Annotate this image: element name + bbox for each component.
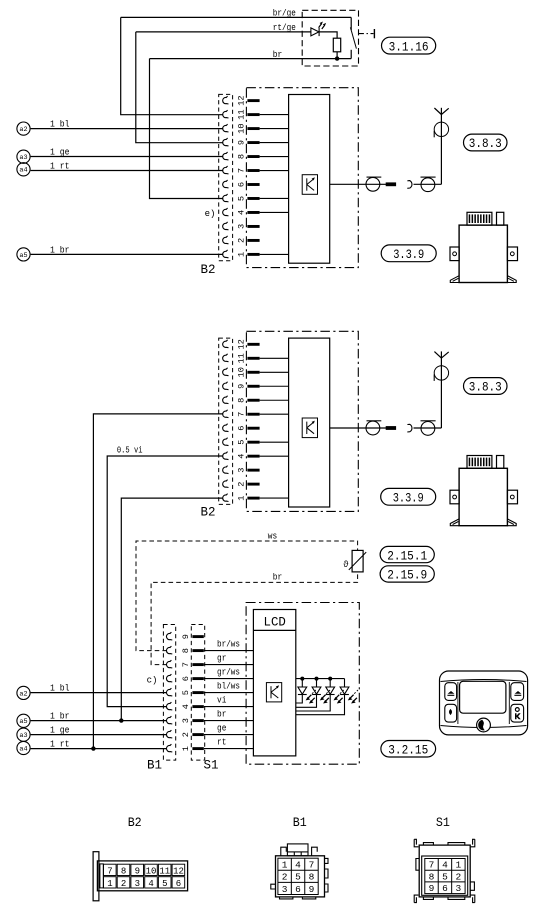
wire 1 bl to B2 pin 10 xyxy=(31,128,224,130)
svg-text:9: 9 xyxy=(237,384,247,389)
contact B1 pin 8 xyxy=(166,646,172,654)
contact B2 pin 2 xyxy=(223,480,229,488)
pin stub S1 pin 1 xyxy=(192,747,203,750)
svg-text:ws: ws xyxy=(268,531,277,541)
svg-text:gr: gr xyxy=(217,654,226,664)
pin stub S1 pin 2 xyxy=(192,733,203,736)
connector B2 contact housing (dashed) xyxy=(219,94,233,260)
contact B1 pin 6 xyxy=(166,674,172,682)
svg-text:3.3.9: 3.3.9 xyxy=(393,247,424,262)
svg-text:B2: B2 xyxy=(201,505,216,520)
svg-text:rt/ge: rt/ge xyxy=(273,23,296,33)
svg-text:9: 9 xyxy=(309,884,315,895)
contact B1 pin 7 xyxy=(166,660,172,668)
wire - B2#2 pin 7 down-link xyxy=(93,414,223,749)
resistor R1 (series resistor) xyxy=(333,38,340,52)
wire LED L1 return xyxy=(296,695,303,704)
svg-text:4: 4 xyxy=(148,879,153,889)
wire - ECU pin 9 to module xyxy=(260,385,289,387)
ECU device drawing - mounting feet xyxy=(450,519,459,526)
ECU pin stub 3 xyxy=(247,469,259,472)
svg-text:2: 2 xyxy=(121,879,126,889)
svg-text:8: 8 xyxy=(237,154,247,159)
wire S1 pin 5 to LCD module xyxy=(204,692,254,694)
ECU function symbol xyxy=(302,418,317,438)
ECU device drawing - side post xyxy=(497,456,504,469)
wire 0.5 vi - B2#2 pin 4 to B1 pin 4 xyxy=(107,456,223,707)
LED L4 emission arrows xyxy=(350,695,354,699)
connector S1 pin housing (dashed) xyxy=(191,625,204,761)
LCD display unit outline (dash-dot) xyxy=(246,603,359,765)
svg-text:br: br xyxy=(273,573,282,583)
switch S blade xyxy=(350,27,356,48)
wire LED L3 return xyxy=(296,695,330,712)
svg-text:5: 5 xyxy=(181,690,191,695)
coax jack J (circle with tangent) xyxy=(421,422,435,436)
wire LED L2 return xyxy=(296,695,317,708)
contact B2 pin 7 xyxy=(223,410,229,418)
wire 1 bl to B1 pin 5 xyxy=(31,692,167,694)
LED L3 emission arrows xyxy=(336,695,340,699)
svg-text:3: 3 xyxy=(237,468,247,473)
svg-text:9: 9 xyxy=(181,634,191,639)
contact B2 pin 10 xyxy=(223,368,229,376)
node a4 (wire origin) xyxy=(17,163,30,176)
svg-text:LCD: LCD xyxy=(264,615,286,629)
reference oval 3.3.9 xyxy=(381,245,436,262)
wire - coax feed from module xyxy=(330,427,396,429)
svg-text:a4: a4 xyxy=(19,745,27,752)
contact B2 pin 3 xyxy=(223,222,229,230)
wire - ECU pin 1 to module xyxy=(260,497,289,499)
svg-text:c): c) xyxy=(147,675,158,685)
svg-text:B1: B1 xyxy=(293,815,307,830)
connector B1 contact housing (dashed) xyxy=(163,625,175,761)
ECU pin stub 12 xyxy=(247,99,259,102)
svg-text:a2: a2 xyxy=(19,126,27,133)
wire S1 pin 8 to LCD module xyxy=(204,650,254,652)
contact B1 pin 1 xyxy=(166,744,172,752)
ECU pin stub 4 xyxy=(247,455,259,458)
ECU pin stub 11 xyxy=(247,357,259,360)
pin stub S1 pin 4 xyxy=(192,705,203,708)
svg-text:B2: B2 xyxy=(128,815,142,830)
ECU pin stub 6 xyxy=(247,183,259,186)
svg-text:10: 10 xyxy=(237,367,247,377)
antenna base circle xyxy=(434,122,448,136)
wire - coax feed from module xyxy=(330,183,396,185)
svg-text:a3: a3 xyxy=(19,154,27,161)
junction a4/1rt with B2#2 pin7 link xyxy=(91,746,95,750)
antenna arms xyxy=(434,352,441,359)
svg-text:3: 3 xyxy=(135,879,140,889)
pin stub S1 pin 3 xyxy=(192,719,203,722)
ECU pin stub 7 xyxy=(247,413,259,416)
wire - jack to antenna lead xyxy=(414,427,442,429)
svg-text:e): e) xyxy=(205,209,216,219)
svg-text:2: 2 xyxy=(181,732,191,737)
LED L1 (display illumination) xyxy=(301,679,303,687)
wire rt/ge vertical to B2 pin 9 xyxy=(136,32,223,143)
contact B2 pin 11 xyxy=(223,110,229,118)
svg-text:11: 11 xyxy=(237,109,247,119)
svg-text:a4: a4 xyxy=(19,167,27,174)
wire S1 pin 3 to LCD module xyxy=(204,720,254,722)
svg-text:4: 4 xyxy=(237,210,247,215)
svg-text:1: 1 xyxy=(107,879,112,889)
svg-text:3.1.16: 3.1.16 xyxy=(389,39,429,54)
svg-text:1: 1 xyxy=(237,252,247,257)
svg-text:3: 3 xyxy=(282,884,288,895)
node a3 (wire origin) xyxy=(17,150,30,163)
pin stub S1 pin 9 xyxy=(192,635,203,638)
wire resistor to br xyxy=(336,52,338,59)
svg-text:bl/ws: bl/ws xyxy=(217,682,240,692)
junction a5/1br with B2#2 pin1 link xyxy=(119,718,123,722)
wire br vertical to B2 pin 5 xyxy=(150,59,224,199)
ECU device drawing - side post xyxy=(497,212,504,225)
svg-text:3: 3 xyxy=(237,224,247,229)
wire S1 pin 1 to LCD module xyxy=(204,748,254,750)
wire - ECU pin 9 to module xyxy=(260,142,289,144)
ECU pin stub 9 xyxy=(247,385,259,388)
reference oval 3.2.15 xyxy=(381,741,436,758)
contact B2 pin 9 xyxy=(223,138,229,146)
node a4 (wire origin) xyxy=(17,741,30,754)
wire S1 pin 2 to LCD module xyxy=(204,734,254,736)
svg-text:gr/ws: gr/ws xyxy=(217,668,240,678)
wire br - ground side xyxy=(150,58,352,60)
svg-text:vi: vi xyxy=(217,696,226,706)
svg-text:2: 2 xyxy=(282,872,288,883)
svg-text:0.5 vi: 0.5 vi xyxy=(117,446,143,456)
svg-text:4: 4 xyxy=(442,860,448,871)
contact B1 pin 4 xyxy=(166,702,172,710)
svg-text:2: 2 xyxy=(237,238,247,243)
wire - ECU pin 8 to module xyxy=(260,399,289,401)
wire - B2#2 pin 1 down-link xyxy=(121,498,223,720)
contact B2 pin 5 xyxy=(223,438,229,446)
svg-text:12: 12 xyxy=(237,95,247,105)
wire - ECU pin 10 to module xyxy=(260,371,289,373)
wire LED L4 return xyxy=(296,695,345,715)
wire 1 br to B1 pin 3 xyxy=(31,720,167,722)
temperature sensor R-theta (NTC) xyxy=(352,550,363,572)
contact B2 pin 4 xyxy=(223,208,229,216)
contact B2 pin 1 xyxy=(223,250,229,258)
svg-text:11: 11 xyxy=(237,353,247,363)
LCD function symbol xyxy=(266,683,281,702)
svg-text:B2: B2 xyxy=(201,262,216,277)
contact B2 pin 5 xyxy=(223,194,229,202)
node a5 (wire origin) xyxy=(17,714,30,727)
wire 1 br to B2 pin 1 xyxy=(31,253,224,255)
svg-text:3.8.3: 3.8.3 xyxy=(469,380,502,395)
wire S1 pin 4 to LCD module xyxy=(204,706,254,708)
svg-text:br/ge: br/ge xyxy=(273,9,296,19)
ECU device drawing - body xyxy=(459,225,507,282)
node a5 (wire origin) xyxy=(17,248,30,261)
reference oval 2.15.1 xyxy=(380,546,434,562)
svg-text:ϑ: ϑ xyxy=(343,560,349,570)
wire 1 ge to B2 pin 8 xyxy=(31,156,224,158)
ECU pin stub 1 xyxy=(247,253,259,256)
ECU internal module xyxy=(289,338,330,507)
wire - ECU pin 11 to module xyxy=(260,357,289,359)
contact B2 pin 8 xyxy=(223,152,229,160)
coax jack J (circle with tangent) xyxy=(421,178,435,192)
reference oval 3.3.9 xyxy=(381,488,436,505)
svg-text:6: 6 xyxy=(295,884,301,895)
wire - ECU pin 4 to module xyxy=(260,455,289,457)
reference oval 3.1.16 xyxy=(382,37,436,54)
wire br/ge - switch feed xyxy=(121,16,352,18)
node a2 (wire origin) xyxy=(17,122,30,135)
contact B2 pin 6 xyxy=(223,180,229,188)
ECU pin stub 2 xyxy=(247,239,259,242)
svg-text:3.3.9: 3.3.9 xyxy=(393,491,424,506)
svg-text:7: 7 xyxy=(429,860,435,871)
contact B1 pin 9 xyxy=(166,632,172,640)
svg-text:6: 6 xyxy=(237,426,247,431)
svg-text:a5: a5 xyxy=(19,252,27,259)
svg-text:4: 4 xyxy=(295,860,301,871)
ECU function symbol xyxy=(302,175,317,195)
wire - antenna lead vertical xyxy=(440,351,442,428)
ECU pin stub 1 xyxy=(247,497,259,500)
svg-text:2: 2 xyxy=(456,871,462,882)
ECU pin stub 4 xyxy=(247,211,259,214)
svg-text:a3: a3 xyxy=(19,732,27,739)
svg-text:4: 4 xyxy=(181,704,191,709)
svg-text:B1: B1 xyxy=(147,757,162,772)
svg-text:2.15.9: 2.15.9 xyxy=(387,568,427,583)
ECU pin stub 9 xyxy=(247,141,259,144)
wire - ECU pin 4 to module xyxy=(260,211,289,213)
ECU pin stub 6 xyxy=(247,427,259,430)
svg-text:10: 10 xyxy=(237,123,247,133)
ECU pin stub 7 xyxy=(247,169,259,172)
ECU outline (dash-dot) xyxy=(246,88,358,268)
LED L2 emission arrows xyxy=(322,695,326,699)
svg-text:8: 8 xyxy=(309,872,315,883)
mechanical link to 3.1.16 (dash-dot) xyxy=(358,33,373,35)
svg-text:12: 12 xyxy=(173,866,184,876)
svg-text:7: 7 xyxy=(181,662,191,667)
contact B2 pin 6 xyxy=(223,424,229,432)
wire - ECU pin 11 to module xyxy=(260,114,289,116)
svg-text:1: 1 xyxy=(456,860,462,871)
wire 1 rt to B1 pin 1 xyxy=(31,748,167,750)
contact B1 pin 2 xyxy=(166,730,172,738)
ECU device drawing - left tab xyxy=(450,490,459,504)
svg-text:7: 7 xyxy=(237,168,247,173)
LED L1 emission arrows xyxy=(308,695,312,699)
ECU device drawing - body xyxy=(459,468,507,525)
svg-text:3.2.15: 3.2.15 xyxy=(388,742,428,757)
ECU pin stub 8 xyxy=(247,399,259,402)
svg-text:ge: ge xyxy=(217,724,226,734)
svg-text:8: 8 xyxy=(121,866,126,876)
pin stub S1 pin 5 xyxy=(192,691,203,694)
svg-text:11: 11 xyxy=(159,866,170,876)
ECU device drawing - mounting feet xyxy=(450,276,459,283)
svg-text:8: 8 xyxy=(429,871,435,882)
coax plug P (circle with tangent) xyxy=(366,177,380,191)
ECU device drawing - left tab xyxy=(450,247,459,261)
wire - ECU pin 5 to module xyxy=(260,441,289,443)
contact B2 pin 12 xyxy=(223,96,229,104)
ECU pin stub 5 xyxy=(247,441,259,444)
svg-text:9: 9 xyxy=(135,866,140,876)
ECU pin stub 5 xyxy=(247,197,259,200)
svg-text:1: 1 xyxy=(237,496,247,501)
node a2 (wire origin) xyxy=(17,686,30,699)
reference oval 3.8.3 xyxy=(464,378,508,395)
outside temperature sensor wiring br (dashed) xyxy=(151,572,358,665)
svg-text:7: 7 xyxy=(107,866,112,876)
LCD module box xyxy=(253,610,295,756)
svg-text:3.8.3: 3.8.3 xyxy=(469,136,502,151)
switch S contact vertical xyxy=(350,17,352,30)
svg-text:br/ws: br/ws xyxy=(217,640,240,650)
wire br/ge vertical to B2 pin 11 xyxy=(121,17,224,114)
wire - ECU pin 7 to module xyxy=(260,170,289,172)
contact B2 pin 12 xyxy=(223,340,229,348)
ECU device drawing - connector hatch xyxy=(467,456,492,469)
ECU device drawing - right tab xyxy=(507,490,517,504)
wire - ECU pin 5 to module xyxy=(260,197,289,199)
contact B2 pin 7 xyxy=(223,166,229,174)
connector B2 contact housing (dashed) xyxy=(219,338,233,504)
svg-text:br: br xyxy=(217,710,226,720)
ECU pin stub 11 xyxy=(247,113,259,116)
ECU internal module xyxy=(289,95,330,264)
svg-text:7: 7 xyxy=(309,860,315,871)
coax plug P (circle with tangent) xyxy=(366,421,380,435)
svg-text:9: 9 xyxy=(237,140,247,145)
contact B2 pin 3 xyxy=(223,466,229,474)
svg-text:3: 3 xyxy=(456,883,462,894)
ECU device drawing - connector hatch xyxy=(467,212,492,225)
terminal bar xyxy=(373,29,375,38)
svg-text:9: 9 xyxy=(429,883,435,894)
coax jack arc xyxy=(407,181,412,189)
ECU outline (dash-dot) xyxy=(246,331,358,511)
control head knob xyxy=(477,718,491,732)
ECU pin stub 3 xyxy=(247,225,259,228)
svg-text:6: 6 xyxy=(176,879,181,889)
svg-text:5: 5 xyxy=(442,871,448,882)
contact B1 pin 5 xyxy=(166,688,172,696)
svg-text:6: 6 xyxy=(181,676,191,681)
svg-text:10: 10 xyxy=(146,866,157,876)
pin stub S1 pin 8 xyxy=(192,649,203,652)
wire - ECU pin 8 to module xyxy=(260,156,289,158)
coax jack arc xyxy=(407,424,412,432)
junction LED1 bus xyxy=(300,677,304,681)
antenna base circle xyxy=(434,366,448,380)
pin stub S1 pin 7 xyxy=(192,663,203,666)
wire - jack to antenna lead xyxy=(414,183,442,185)
contact B2 pin 4 xyxy=(223,452,229,460)
coax plug contact bar xyxy=(386,182,396,186)
LCD label compartment xyxy=(253,629,295,631)
svg-text:1: 1 xyxy=(181,746,191,751)
svg-text:5: 5 xyxy=(237,196,247,201)
svg-text:3: 3 xyxy=(181,718,191,723)
reference oval 3.8.3 xyxy=(464,134,508,151)
svg-text:S1: S1 xyxy=(436,815,450,830)
wire S1 pin 7 to LCD module xyxy=(204,664,254,666)
LED L3 (display illumination) xyxy=(329,679,331,687)
svg-text:7: 7 xyxy=(237,412,247,417)
wire 1 ge to B1 pin 2 xyxy=(31,734,167,736)
svg-text:8: 8 xyxy=(181,648,191,653)
LED anode bus xyxy=(296,678,345,680)
svg-text:a2: a2 xyxy=(19,690,27,697)
junction LED3 bus xyxy=(328,677,332,681)
wire - ECU pin 1 to module xyxy=(260,253,289,255)
wire S1 pin 6 to LCD module xyxy=(204,678,254,680)
svg-text:5: 5 xyxy=(295,872,301,883)
contact B2 pin 8 xyxy=(223,396,229,404)
svg-text:1: 1 xyxy=(282,860,288,871)
wire LED to resistor xyxy=(319,32,337,38)
contact B2 pin 2 xyxy=(223,236,229,244)
ECU pin stub 10 xyxy=(247,371,259,374)
reference oval 2.15.9 xyxy=(380,566,434,582)
svg-text:6: 6 xyxy=(237,182,247,187)
illuminated switch housing (dashed box) xyxy=(302,10,358,66)
pin stub S1 pin 6 xyxy=(192,677,203,680)
LED D1 (switch illumination) xyxy=(311,28,319,36)
svg-text:2.15.1: 2.15.1 xyxy=(387,548,427,563)
ECU pin stub 2 xyxy=(247,483,259,486)
ECU pin stub 10 xyxy=(247,127,259,130)
svg-text:6: 6 xyxy=(442,883,448,894)
svg-text:5: 5 xyxy=(237,440,247,445)
coax plug contact bar xyxy=(386,426,396,430)
outside temperature sensor wiring ws (dashed) xyxy=(136,541,358,651)
wire 1 rt to B2 pin 7 xyxy=(31,170,224,172)
ECU pin stub 8 xyxy=(247,155,259,158)
svg-text:12: 12 xyxy=(237,339,247,349)
svg-text:a5: a5 xyxy=(19,718,27,725)
contact B2 pin 11 xyxy=(223,354,229,362)
wire - ECU pin 10 to module xyxy=(260,128,289,130)
wire - ECU pin 7 to module xyxy=(260,413,289,415)
svg-text:2: 2 xyxy=(237,482,247,487)
antenna arms xyxy=(434,108,441,115)
svg-text:rt: rt xyxy=(217,738,226,748)
LED L2 (display illumination) xyxy=(316,679,318,687)
svg-text:br: br xyxy=(273,50,282,60)
junction resistor/br xyxy=(335,56,339,60)
contact B2 pin 9 xyxy=(223,382,229,390)
wire - antenna lead vertical xyxy=(440,108,442,185)
svg-text:4: 4 xyxy=(237,454,247,459)
LED L4 (display illumination) xyxy=(344,679,346,687)
node a3 (wire origin) xyxy=(17,728,30,741)
svg-text:5: 5 xyxy=(162,879,167,889)
component - control head 3.2.15 xyxy=(440,671,528,735)
wire rt/ge - LED feed xyxy=(136,31,311,33)
svg-text:S1: S1 xyxy=(204,757,219,772)
svg-text:8: 8 xyxy=(237,398,247,403)
ECU device drawing - right tab xyxy=(507,247,517,261)
contact B2 pin 10 xyxy=(223,124,229,132)
